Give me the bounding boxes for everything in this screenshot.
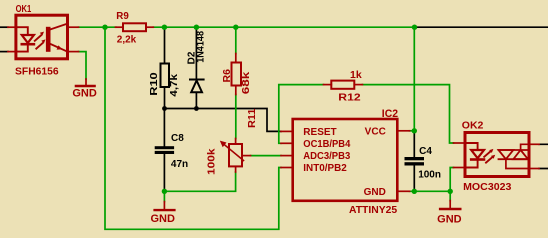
- OK1 light arrow 1: [35, 35, 41, 40]
- svg-text:MOC3023: MOC3023: [463, 181, 511, 193]
- svg-text:68k: 68k: [240, 72, 252, 95]
- OK2 LED cathode bar: [471, 158, 484, 161]
- wire: left black wire pin1: [0, 26, 8, 28]
- R11 arrowhead: [220, 141, 227, 148]
- svg-text:VCC: VCC: [365, 126, 386, 137]
- svg-text:2,2k: 2,2k: [117, 34, 137, 46]
- IC2 pin GND stub: [397, 190, 409, 192]
- wire: GND2 rail to R11 bottom: [164, 172, 235, 191]
- wire: top rail green left segment: [79, 26, 117, 28]
- svg-text:GND: GND: [150, 213, 175, 225]
- wire: C8 bottom black lead: [163, 154, 165, 191]
- OK1 pin 2 stub left bottom: [8, 51, 16, 53]
- IC2 pin ADC3 stub: [281, 155, 293, 157]
- node: junction R9 left: [102, 25, 107, 30]
- OK2 LED cathode line: [465, 161, 478, 168]
- potentiometer R11: [225, 139, 251, 173]
- R11 wiper lead: [242, 155, 251, 157]
- OK1 pin stub right bottom: [68, 51, 79, 53]
- wire: OK1 bottom right to GND1: [79, 52, 87, 79]
- OK1 pin stub right top: [68, 26, 79, 28]
- svg-text:R10: R10: [149, 72, 160, 96]
- wire: C4 top black lead: [413, 131, 415, 157]
- IC2 pin RESET stub: [281, 130, 293, 132]
- wire: OK2 right black wires: [539, 144, 548, 168]
- OK2 MT1 line: [506, 159, 529, 168]
- IC2 box: [293, 119, 398, 201]
- OK1 box: [16, 15, 68, 59]
- wire: left black wire pin2: [0, 51, 8, 53]
- OK2 pin MT1 stub: [529, 168, 539, 170]
- resistor R9: [116, 23, 154, 31]
- svg-text:IC2: IC2: [382, 108, 398, 120]
- OK2 light arrowhead 2: [491, 155, 495, 159]
- svg-text:GND: GND: [437, 214, 462, 226]
- D2 triangle: [191, 81, 202, 93]
- OK1 light arrowhead 1: [40, 32, 44, 36]
- wire: GND2 stem green: [163, 191, 165, 201]
- OK1 pin 1 stub left top: [8, 26, 16, 28]
- OK2 triac top line: [499, 149, 529, 151]
- OK1 LED cathode line: [16, 46, 28, 52]
- node: junction GND3: [448, 189, 453, 194]
- OK2 light arrow 2: [486, 157, 492, 162]
- IC U1: IC2 ATTINY25: [281, 119, 410, 201]
- OK1 LED triangle: [22, 35, 34, 43]
- svg-text:100k: 100k: [206, 148, 218, 175]
- OK2 LED triangle: [471, 150, 484, 158]
- wire: R10 top black lead: [164, 28, 166, 64]
- OK2 LED anode line: [465, 143, 478, 150]
- IC2 pin VCC stub: [397, 130, 409, 132]
- capacitor C8 (black): [155, 146, 174, 154]
- svg-text:100n: 100n: [418, 169, 441, 180]
- OK2 triac bottom line: [499, 158, 529, 160]
- node: black junction D2 bottom: [194, 106, 199, 111]
- resistor R6: [232, 54, 242, 95]
- wire: GND3 stem green: [449, 191, 451, 200]
- svg-text:RESET: RESET: [303, 127, 336, 138]
- wire: black node horizontal to RESET: [165, 109, 282, 132]
- wire: GND to OK2 cathode: [450, 168, 453, 192]
- wire: GND net right: [410, 190, 451, 192]
- resistor R10 (black): [161, 64, 170, 88]
- wire: R12 right to OK2 anode: [362, 85, 453, 143]
- wire: D2 top black lead: [195, 28, 197, 79]
- svg-text:1k: 1k: [350, 69, 362, 81]
- OK1 LED cathode bar: [22, 43, 34, 46]
- wire: C8 top black lead: [163, 109, 165, 147]
- IC2 pin INT0 stub: [281, 167, 293, 169]
- svg-text:OK2: OK2: [462, 119, 484, 131]
- node: junction VCC pin: [412, 128, 417, 133]
- svg-text:R11: R11: [246, 108, 258, 128]
- wire: left vertical rail x=105 down and bottom rail: [105, 27, 281, 229]
- node: junction C4 bottom GND: [412, 189, 417, 194]
- svg-text:R12: R12: [338, 92, 360, 104]
- OK1 light arrow 2: [36, 43, 42, 48]
- svg-text:4,7k: 4,7k: [169, 74, 180, 97]
- node: junction C8 bottom GND: [162, 189, 167, 194]
- D2 cathode bar: [190, 79, 204, 81]
- optocoupler OK2 MOC3023: [454, 133, 540, 177]
- OK2 box: [465, 133, 529, 177]
- svg-text:SFH6156: SFH6156: [15, 66, 59, 78]
- svg-text:R9: R9: [116, 10, 129, 22]
- OK2 pin MT2 stub: [529, 143, 539, 145]
- resistor R12: [324, 81, 363, 89]
- node: junction R10 top: [162, 25, 167, 30]
- OK1 transistor emitter: [51, 44, 68, 51]
- svg-text:47n: 47n: [171, 159, 188, 170]
- node: junction VCC top right: [412, 25, 417, 30]
- ground GND2: [155, 202, 175, 211]
- optocoupler OK1: [8, 15, 79, 59]
- wire: C4 bottom black lead: [413, 166, 415, 192]
- svg-text:1N4148: 1N4148: [195, 31, 206, 63]
- OK2 pin cathode stub: [454, 167, 466, 169]
- OK1 LED anode line: [16, 27, 28, 35]
- ground GND1: [76, 79, 95, 86]
- OK2 MT2 line: [521, 144, 529, 150]
- node: junction D2 top: [194, 25, 199, 30]
- svg-text:GND: GND: [72, 88, 97, 100]
- ground GND3: [440, 201, 460, 209]
- wire: R6 top green: [235, 27, 237, 53]
- wire: R11 wiper to ADC3: [251, 155, 282, 157]
- OK1 light arrowhead 2: [41, 39, 45, 43]
- svg-text:C4: C4: [419, 146, 432, 157]
- OK2 light arrow 1: [484, 151, 490, 156]
- svg-text:OK1: OK1: [16, 3, 32, 15]
- svg-text:OC1B/PB4: OC1B/PB4: [303, 139, 350, 150]
- OK2 pin anode stub: [454, 142, 466, 144]
- OK2 light arrowhead 1: [489, 149, 493, 153]
- wire: VCC pin to vertical: [410, 130, 415, 132]
- capacitor C4 (black): [405, 157, 425, 166]
- wire: top rail black right: [415, 26, 548, 28]
- IC2 pin OC1B stub: [281, 142, 293, 144]
- OK2 triac triangle down: [499, 150, 514, 159]
- wire: top rail green right segment: [153, 26, 414, 28]
- svg-text:ATTINY25: ATTINY25: [349, 205, 398, 216]
- OK1 transistor bar: [46, 27, 51, 52]
- OK1 emitter arrowhead: [57, 45, 63, 49]
- R11 arrow line: [225, 145, 244, 160]
- svg-text:C8: C8: [171, 133, 184, 144]
- OK2 triac triangle up: [513, 150, 528, 159]
- svg-text:R6: R6: [221, 69, 233, 83]
- OK1 transistor collector: [51, 24, 68, 30]
- diode D2 (black): [190, 80, 204, 93]
- node: junction R6 top: [233, 25, 238, 30]
- wire: D2 bottom black lead: [195, 93, 197, 109]
- wire: R6 bottom to R11 top green: [235, 95, 237, 139]
- node: black junction R10/C8: [162, 106, 167, 111]
- wire: R12 left to OC1B: [279, 85, 324, 144]
- svg-text:ADC3/PB3: ADC3/PB3: [303, 151, 350, 162]
- svg-text:INT0/PB2: INT0/PB2: [303, 163, 347, 174]
- svg-text:GND: GND: [364, 187, 386, 198]
- wire: R10 bottom black lead: [164, 87, 166, 109]
- wire: VCC vertical: [413, 27, 415, 131]
